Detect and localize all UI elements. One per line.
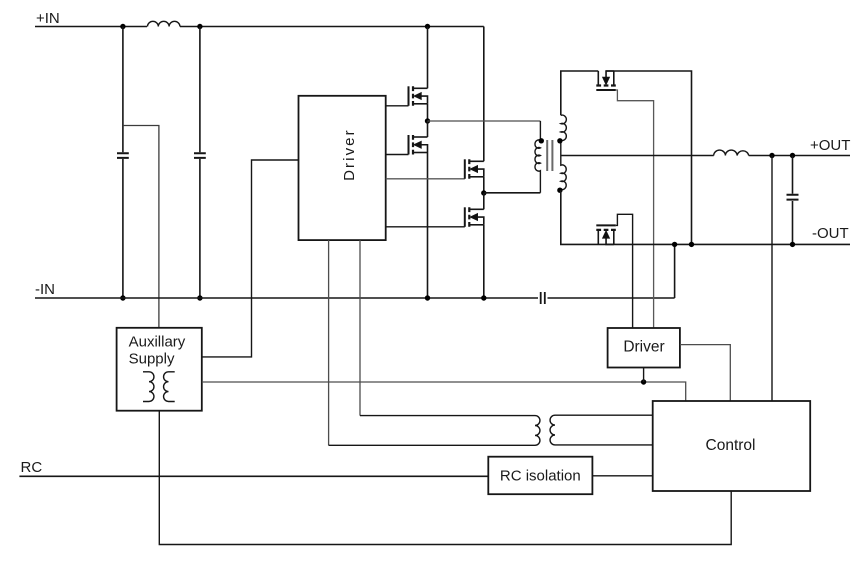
box driver U2 secondary side (608, 328, 680, 368)
wire driver U2 bottom lead (643, 368, 645, 383)
svg-text:+OUT: +OUT (810, 137, 850, 154)
transistor Q3 (465, 159, 484, 179)
node -OUT junction dot rail (689, 242, 694, 247)
node junction dot Q1 drain top (425, 24, 430, 29)
wire +OUT rail from center tap (561, 155, 714, 157)
wire driver U2 right to control top (680, 345, 730, 401)
wire Q1 source to switch node (427, 104, 429, 121)
transformer T2 gate drive left winding (329, 416, 540, 446)
wire -IN link up to -OUT rail (674, 244, 676, 298)
wire Q3 drain from +IN rail (483, 27, 485, 162)
capacitor C2 (194, 153, 206, 158)
wire -IN rail (35, 297, 675, 299)
svg-text:Supply: Supply (129, 351, 175, 368)
capacitor C3 output (787, 195, 799, 200)
node -IN junction dot C1 (120, 295, 125, 300)
node -IN junction dot Q2 (425, 295, 430, 300)
node -OUT junction dot link (672, 242, 677, 247)
wire C2 branch vertical (199, 27, 201, 299)
svg-text:RC: RC (21, 459, 43, 476)
box control U3 (653, 401, 811, 491)
node +OUT junction dot feedback (769, 153, 774, 158)
transistor Q4 (465, 207, 484, 227)
wire switch node to T1 primary top (428, 120, 541, 122)
wire Q1 drain (427, 27, 429, 89)
node T1 secondary upper polarity dot (557, 138, 562, 143)
svg-text:Driver: Driver (623, 338, 664, 355)
wire +OUT rail right (749, 155, 850, 157)
svg-text:+IN: +IN (36, 10, 60, 27)
box auxillary supply PS1 (117, 328, 202, 411)
transistor Q2 (409, 135, 428, 155)
node junction dot C1 top (120, 24, 125, 29)
wire RC input line (19, 475, 488, 477)
node +OUT junction dot C3 (790, 153, 795, 158)
transistor Q1 (409, 86, 428, 106)
wire auxillary right to driver U2 and control (202, 382, 686, 401)
wire +IN rail (35, 26, 147, 28)
wire driver U1 to T2 primary bottom (328, 240, 330, 445)
wire Q4 source to -IN (483, 225, 485, 298)
node T1 primary polarity dot (539, 138, 544, 143)
svg-text:Control: Control (706, 437, 756, 454)
wire +IN rail right segment (180, 26, 484, 28)
wire Q6 gate line to driver U2 (616, 214, 633, 328)
wire output capacitor branch (792, 156, 794, 245)
node junction dot driver U2 bottom lead (641, 379, 646, 384)
svg-text:RC isolation: RC isolation (500, 467, 581, 484)
box driver U1 (299, 96, 386, 240)
transformer symbol inside auxillary supply right winding (164, 372, 175, 402)
wire Q3 gate lead (386, 178, 465, 180)
node B junction dot (481, 190, 486, 195)
node junction dot C2 top (197, 24, 202, 29)
transistor Q5 sync rectifier top (596, 71, 616, 90)
wire Q5 gate line to driver U2 (616, 90, 654, 328)
wire rectifier top rail right (606, 71, 691, 244)
inductor L1 input filter (148, 21, 180, 26)
wire driver U1 to T2 primary top (359, 240, 361, 416)
wire auxillary to driver U1 (202, 160, 299, 357)
wire RC isolation to control (592, 475, 652, 477)
wire secondary bottom to -OUT rail (561, 190, 850, 244)
transformer T1 primary winding (535, 121, 540, 193)
wire Q4 drain (483, 193, 485, 209)
node -IN junction dot Q4 (481, 295, 486, 300)
transformer symbol inside auxillary supply left winding (143, 372, 154, 402)
wire Q2 drain (427, 121, 429, 137)
wire Q1 gate lead (386, 105, 409, 107)
svg-text:Auxillary: Auxillary (129, 334, 186, 351)
capacitor C1 (117, 153, 129, 158)
wire C1 branch vertical (122, 27, 124, 299)
node switch node A dot (425, 118, 430, 123)
svg-text:-OUT: -OUT (812, 225, 849, 242)
wire Q2 gate lead (386, 154, 409, 156)
node T1 secondary lower polarity dot (557, 188, 562, 193)
wire secondary top to rectifier rail (561, 71, 599, 115)
wire branch to auxillary supply (123, 126, 159, 328)
transistor Q6 sync rectifier bottom (596, 225, 616, 244)
inductor L2 output filter (714, 150, 749, 155)
wire Q2 source to -IN (427, 153, 429, 299)
wire Q4 gate lead (386, 226, 465, 228)
wire node B to T1 primary bottom (484, 192, 541, 194)
wire feedback +OUT to control (771, 156, 773, 402)
box RC isolation U4 (488, 457, 592, 495)
svg-text:-IN: -IN (35, 281, 55, 298)
capacitor C4 series on -IN link (541, 292, 545, 304)
wire auxillary bottom to control bottom (159, 411, 731, 545)
wire Q3 source to node B (483, 177, 485, 193)
svg-text:Driver: Driver (341, 128, 358, 181)
transformer T1 core (547, 140, 552, 171)
transformer T2 gate drive right winding (550, 415, 653, 445)
transformer T1 secondary winding (561, 115, 567, 190)
node -IN junction dot C2 (197, 295, 202, 300)
node -OUT junction dot C3 (790, 242, 795, 247)
